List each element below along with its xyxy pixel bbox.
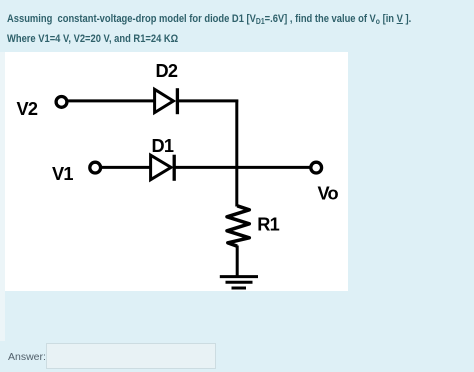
wire V2 to D2 xyxy=(68,99,155,102)
answer input box xyxy=(46,343,216,369)
terminal V2 xyxy=(56,97,67,108)
wire R1 to ground xyxy=(236,246,239,277)
resistor R1 xyxy=(227,206,249,246)
wire vertical from D2 corner to junction xyxy=(235,100,238,168)
terminal V1 xyxy=(90,162,101,173)
svg-text:V1: V1 xyxy=(52,164,73,184)
wire D2 to corner xyxy=(177,99,238,102)
svg-text:R1: R1 xyxy=(257,215,279,235)
left light strip xyxy=(0,52,5,341)
svg-text:Vo: Vo xyxy=(318,183,339,203)
svg-text:V2: V2 xyxy=(17,99,38,119)
wire V1 to D1 xyxy=(102,166,151,169)
junction node xyxy=(235,167,238,206)
svg-text:D1: D1 xyxy=(152,136,174,156)
terminal Vo xyxy=(311,162,322,173)
wire D1 to Vo xyxy=(174,166,311,169)
question text xyxy=(7,10,411,49)
diode D1 xyxy=(151,155,175,181)
svg-text:D2: D2 xyxy=(156,61,178,81)
white circuit panel xyxy=(5,52,348,291)
diode D2 xyxy=(155,88,178,114)
answer label xyxy=(8,351,46,363)
ground xyxy=(220,277,258,288)
